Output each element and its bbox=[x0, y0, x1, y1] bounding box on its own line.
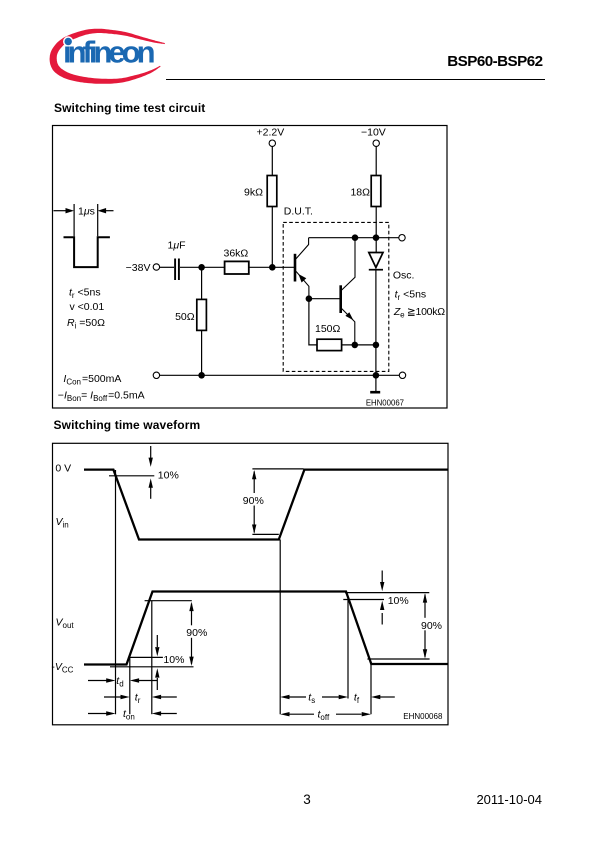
output junction dot G bbox=[373, 342, 380, 349]
svg-text:90%: 90% bbox=[186, 627, 207, 639]
toff right arrow bbox=[336, 712, 371, 716]
node junction dot E bbox=[306, 295, 313, 302]
transistor Q1 emitter bbox=[296, 271, 309, 298]
header rule bbox=[166, 79, 545, 80]
svg-text:Ze ≧100kΩ: Ze ≧100kΩ bbox=[393, 306, 445, 320]
wire input to C1 bbox=[160, 266, 174, 268]
svg-text:tr <5ns: tr <5ns bbox=[69, 287, 101, 301]
tf right arrow bbox=[371, 695, 395, 699]
svg-text:90%: 90% bbox=[243, 495, 264, 507]
resistor 50Ohm bbox=[197, 299, 207, 330]
logo i-dot bbox=[63, 36, 73, 46]
svg-text:td: td bbox=[116, 675, 123, 689]
wire +2.2V to R9k bbox=[271, 146, 273, 175]
bottom rail right terminal bbox=[399, 372, 405, 378]
Vout 90 percent label right bbox=[420, 618, 445, 632]
section heading 2 bbox=[54, 418, 201, 432]
svg-text:EHN00067: EHN00067 bbox=[366, 399, 404, 408]
svg-text:10%: 10% bbox=[388, 595, 409, 607]
Vout 90 percent label left bbox=[185, 625, 210, 639]
svg-text:−IBon= IBoff=0.5mA: −IBon= IBoff=0.5mA bbox=[58, 390, 145, 404]
footer page number bbox=[297, 792, 317, 807]
bottom rail wire bbox=[160, 374, 400, 376]
Vin 10 percent upper arrow bbox=[149, 446, 153, 467]
rail junction dot H bbox=[198, 372, 205, 379]
resistor 18Ohm bbox=[371, 176, 381, 207]
svg-text:D.U.T.: D.U.T. bbox=[284, 206, 313, 218]
vertical ref line tf start bbox=[347, 600, 349, 699]
wire Q1 emitter to Q2 base bbox=[309, 298, 340, 300]
svg-text:36kΩ: 36kΩ bbox=[224, 248, 249, 260]
Vout 90 percent arrow left bbox=[189, 602, 193, 666]
svg-text:1μF: 1μF bbox=[168, 240, 186, 252]
Vout 10 percent lower arrow left bbox=[155, 668, 159, 690]
svg-text:10%: 10% bbox=[163, 654, 184, 666]
Vin 10 percent lower arrow bbox=[149, 478, 153, 498]
svg-text:ts: ts bbox=[308, 691, 315, 705]
svg-text:ınfineon: ınfineon bbox=[63, 35, 156, 70]
Vout 10 percent upper arrow right bbox=[380, 571, 384, 592]
svg-text:18Ω: 18Ω bbox=[350, 187, 370, 199]
Vin 10 percent ref line bbox=[109, 475, 154, 477]
svg-text:+2.2V: +2.2V bbox=[257, 126, 285, 138]
svg-text:tr: tr bbox=[135, 691, 141, 705]
svg-text:150Ω: 150Ω bbox=[315, 323, 341, 335]
svg-text:9kΩ: 9kΩ bbox=[244, 187, 263, 199]
svg-text:EHN00068: EHN00068 bbox=[403, 712, 443, 721]
footer date bbox=[476, 792, 542, 807]
pulse width right arrow bbox=[98, 208, 114, 213]
tr left arrow bbox=[104, 695, 130, 699]
svg-text:−38V: −38V bbox=[126, 262, 151, 274]
wire R150 to output node bbox=[342, 344, 376, 346]
svg-text:0 V: 0 V bbox=[55, 463, 71, 475]
svg-text:ton: ton bbox=[123, 708, 135, 722]
wire node G to bottom rail bbox=[375, 345, 377, 375]
Vout 10 percent ref line right bbox=[343, 593, 429, 600]
capacitor C1 1uF bbox=[175, 259, 179, 281]
ground wire bbox=[375, 375, 377, 391]
ton left arrow bbox=[88, 711, 116, 715]
wire -10V to R18 bbox=[375, 146, 377, 175]
ts right arrow bbox=[322, 695, 348, 699]
Vout base ref line right bbox=[367, 658, 429, 660]
vertical ref line tf end bbox=[370, 663, 372, 714]
td right arrow bbox=[130, 678, 157, 682]
svg-text:v <0.01: v <0.01 bbox=[70, 301, 105, 313]
svg-text:toff: toff bbox=[318, 709, 330, 723]
ton right arrow bbox=[152, 711, 177, 715]
Vin 90 percent label bbox=[242, 493, 268, 507]
transistor Q2 collector bbox=[342, 238, 355, 290]
wire node A to R50 bbox=[201, 267, 203, 299]
Vout 10 percent ref line left bbox=[128, 656, 163, 658]
svg-text:ICon=500mA: ICon=500mA bbox=[63, 373, 121, 387]
bottom rail left terminal bbox=[153, 372, 159, 378]
collector rail wire bbox=[309, 237, 399, 239]
rail junction dot C bbox=[352, 234, 359, 241]
transistor Q2 emitter arrow bbox=[345, 312, 353, 320]
Vout waveform bbox=[84, 592, 448, 665]
pulse width ticks bbox=[74, 204, 98, 236]
input pulse waveform bbox=[64, 237, 110, 267]
diode D1 bbox=[369, 253, 383, 270]
product title bbox=[447, 53, 542, 70]
logo red swoosh bbox=[50, 29, 165, 84]
output junction dot F bbox=[352, 342, 359, 349]
wire diode to node G bbox=[375, 271, 377, 345]
Vin 90 percent arrow bbox=[252, 469, 304, 535]
Vout 90 percent arrow right bbox=[423, 593, 427, 658]
Vin waveform bbox=[84, 470, 448, 540]
Vout 10 percent upper arrow left bbox=[155, 635, 159, 656]
node junction dot B bbox=[269, 264, 276, 271]
vertical ref line tr end bbox=[151, 601, 153, 715]
waveform figure frame bbox=[53, 443, 449, 725]
vertical ref line td end bbox=[129, 657, 131, 714]
rail junction dot I bbox=[373, 372, 380, 379]
Vout base ref line left bbox=[110, 666, 194, 668]
svg-text:-VCC: -VCC bbox=[51, 661, 73, 675]
resistor 36kOhm bbox=[225, 261, 249, 274]
svg-text:Osc.: Osc. bbox=[393, 270, 415, 282]
toff left arrow bbox=[280, 712, 314, 716]
svg-text:50Ω: 50Ω bbox=[175, 311, 195, 323]
transistor Q1 bar bbox=[294, 254, 297, 282]
resistor 150Ohm bbox=[317, 339, 342, 350]
DUT dashed box bbox=[283, 222, 389, 371]
wire R36k to base node bbox=[249, 266, 295, 268]
transistor Q2 emitter bbox=[342, 309, 355, 345]
svg-text:tf: tf bbox=[354, 691, 360, 705]
svg-text:−10V: −10V bbox=[361, 126, 386, 138]
vertical ref line ts start bbox=[279, 540, 281, 715]
wire R9k to node B bbox=[271, 207, 273, 268]
transistor Q1 collector bbox=[296, 238, 309, 259]
svg-text:1μs: 1μs bbox=[78, 206, 95, 218]
transistor Q1 emitter arrow bbox=[298, 274, 306, 283]
Vout 90 percent ref line left bbox=[145, 600, 192, 602]
terminal +2.2V bbox=[269, 140, 275, 146]
wire R18 down to diode bbox=[375, 207, 377, 253]
node junction dot A bbox=[198, 264, 205, 271]
pulse width left arrow bbox=[54, 208, 75, 213]
svg-text:10%: 10% bbox=[158, 469, 179, 481]
svg-text:Vout: Vout bbox=[56, 617, 75, 631]
svg-text:Ri =50Ω: Ri =50Ω bbox=[67, 317, 105, 331]
oscilloscope terminal top bbox=[399, 235, 405, 241]
terminal -10V bbox=[373, 140, 379, 146]
rail junction dot D bbox=[373, 234, 380, 241]
svg-text:90%: 90% bbox=[421, 620, 442, 632]
wire node E down to R150 bbox=[309, 299, 317, 345]
td left arrow bbox=[88, 678, 116, 682]
input terminal bbox=[153, 264, 159, 270]
Infineon logo bbox=[44, 26, 170, 88]
svg-text:tr <5ns: tr <5ns bbox=[395, 289, 427, 303]
resistor 9kOhm bbox=[267, 176, 277, 207]
circuit figure frame bbox=[53, 126, 448, 409]
tr right arrow bbox=[152, 695, 177, 699]
wire C1 to R 36k bbox=[180, 266, 225, 268]
ground bbox=[370, 391, 380, 394]
svg-text:Vin: Vin bbox=[56, 516, 69, 530]
vertical ref line td start bbox=[115, 470, 117, 714]
section heading 1 bbox=[54, 101, 205, 115]
transistor Q2 bar bbox=[339, 285, 342, 313]
ts left arrow bbox=[280, 695, 306, 699]
Vout 10 percent lower arrow right bbox=[380, 601, 384, 625]
wire R50 to bottom rail bbox=[201, 330, 203, 375]
